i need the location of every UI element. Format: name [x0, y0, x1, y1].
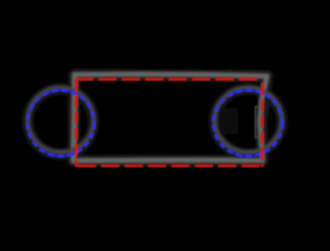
- grey hand-drawn rectangle bottom edge: [74, 158, 263, 163]
- grey hand-drawn rectangle left edge: [74, 75, 75, 161]
- red dashed rectangle bottom edge: [76, 164, 263, 167]
- blue dashed fitted left circle: [27, 90, 94, 156]
- red dashed rectangle right edge: [261, 79, 264, 167]
- blue bottom arc fill right circle: [233, 153, 262, 156]
- blue dashed fitted right circle: [213, 90, 282, 156]
- grey hand-drawn right circle stroke: [215, 88, 282, 153]
- haze under rectangle: [74, 75, 268, 161]
- grey hand-drawn rectangle right edge: [260, 76, 267, 160]
- grey patch inside right circle: [220, 108, 238, 134]
- haze under left circle: [28, 89, 94, 154]
- red dashed rectangle top edge: [76, 78, 262, 81]
- red dashed rectangle left edge: [75, 79, 78, 167]
- grey bracket mark inside right circle: [256, 107, 259, 138]
- blue top arc fill right circle: [233, 90, 262, 93]
- blue top arc fill left circle: [47, 90, 75, 93]
- grey hand-drawn rectangle top edge: [75, 74, 268, 76]
- haze under right circle: [214, 89, 282, 154]
- grey hand-drawn left circle stroke: [28, 88, 94, 153]
- blue bottom arc fill left circle: [47, 153, 75, 156]
